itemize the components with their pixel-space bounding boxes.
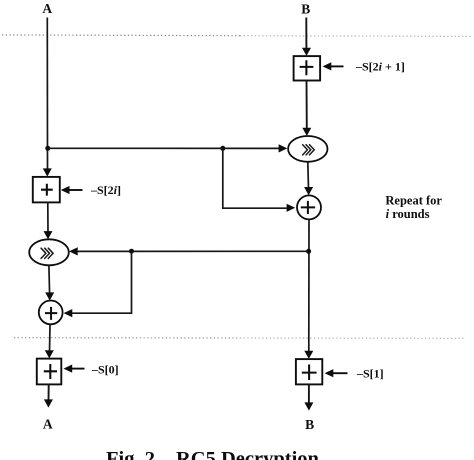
node junction on A wire (feeds rotate-amount tap) — [45, 146, 50, 151]
arrow from label -S[1] into box (pointing left) — [333, 372, 348, 374]
arrowhead into right XOR circle (downward) — [304, 187, 313, 195]
plus sign inside S[0] box — [44, 364, 57, 379]
svg-text:–S[2i + 1]: –S[2i + 1] — [355, 60, 405, 74]
wire: A input vertical down to subtract box S[2i] — [46, 18, 48, 171]
arrowhead into left rotate ellipse (from right, pointing left) — [69, 247, 78, 255]
plus sign inside S[1] box — [302, 365, 317, 381]
arrowhead into right XOR circle (from left) — [287, 204, 296, 212]
arrowhead into right rotate ellipse (from left) — [279, 144, 288, 152]
rotate-right ellipse (right column) — [288, 136, 327, 162]
svg-text:–S[2i]: –S[2i] — [90, 183, 121, 197]
svg-text:B: B — [301, 2, 310, 17]
arrowhead into right rotate ellipse (downward) — [302, 128, 311, 136]
node junction on horizontal tap wire — [220, 146, 225, 151]
arrow from label -S[0] into box (pointing left) — [71, 368, 85, 370]
XOR circle (left column) — [39, 301, 63, 325]
arrowhead output B (downward) — [304, 402, 313, 410]
wire: left rotate ellipse down to left XOR circle — [48, 265, 51, 294]
wire: horizontal feedback from B column into left rotate ellipse — [76, 250, 309, 252]
subtract box S[2i+1] (top right) — [294, 56, 321, 80]
subtract box S[1] (bottom right) — [296, 359, 322, 384]
wire: S[0] box down to output A — [48, 384, 50, 401]
plus sign inside S[2i+1] box — [300, 60, 314, 75]
wire: B input vertical down to subtract box S[2i+1] — [305, 18, 307, 50]
wire: right rotate ellipse down to right XOR circle — [307, 162, 310, 189]
dotted separator line (top round boundary) — [2, 34, 240, 37]
wire: left XOR circle down to subtract box S[0] — [49, 324, 52, 352]
svg-text:i rounds: i rounds — [386, 207, 430, 221]
arrowhead output A (downward) — [44, 399, 53, 407]
>>> glyph inside left ellipse — [41, 248, 53, 258]
subtract box S[0] (bottom left) — [37, 359, 62, 385]
arrowhead into S[1] box (downward) — [304, 351, 313, 359]
wire: S[1] box down to output B — [308, 384, 310, 403]
arrowhead into left subtract box S[2i] (downward) — [43, 168, 52, 176]
wire: from tap junction down then right into right XOR circle — [223, 148, 288, 208]
plus sign inside S[2i] box — [41, 184, 53, 196]
dotted separator line (bottom round boundary) — [14, 337, 240, 339]
arrowhead into S[0] box (downward) — [45, 350, 54, 358]
svg-text:A: A — [42, 1, 52, 16]
XOR circle (right column) — [297, 195, 321, 219]
wire: right XOR circle down to subtract box S[1] — [308, 219, 310, 352]
node junction on feedback wire (left) — [129, 249, 134, 254]
svg-text:–S[0]: –S[0] — [91, 363, 119, 377]
node junction on B wire (feedback tap) — [306, 249, 311, 254]
svg-text:Fig. 2.RC5 Decryption: Fig. 2.RC5 Decryption — [106, 448, 320, 460]
subtract box S[2i] (left column modular subtract) — [33, 177, 60, 203]
svg-text:A: A — [43, 417, 53, 432]
wire: S[2i] box down to left rotate ellipse — [47, 202, 49, 233]
rotate-right ellipse (left column) — [29, 239, 69, 265]
svg-text:B: B — [305, 417, 314, 432]
plus sign inside left XOR circle — [45, 307, 57, 320]
arrowhead into S[2i+1] box (downward) — [302, 48, 311, 56]
arrowhead into left XOR circle (downward) — [45, 292, 54, 300]
>>> glyph inside right ellipse — [303, 145, 315, 155]
arrow from label -S[2i] into box (pointing left) — [69, 189, 83, 191]
wire: horizontal tap from A-wire junction to right rotate ellipse — [48, 147, 280, 149]
wire: S[2i+1] box down to right rotate ellipse — [306, 81, 308, 130]
wire: junction down then left into left XOR circle — [71, 251, 132, 313]
arrowhead into left rotate ellipse (downward) — [44, 231, 53, 239]
svg-text:Repeat for: Repeat for — [385, 193, 442, 207]
arrowhead into left XOR circle (from right, pointing left) — [64, 309, 73, 317]
plus sign inside right XOR circle — [301, 201, 315, 214]
arrow from label -S[2i+1] into box (pointing left) — [330, 65, 344, 67]
svg-text:–S[1]: –S[1] — [356, 366, 384, 380]
